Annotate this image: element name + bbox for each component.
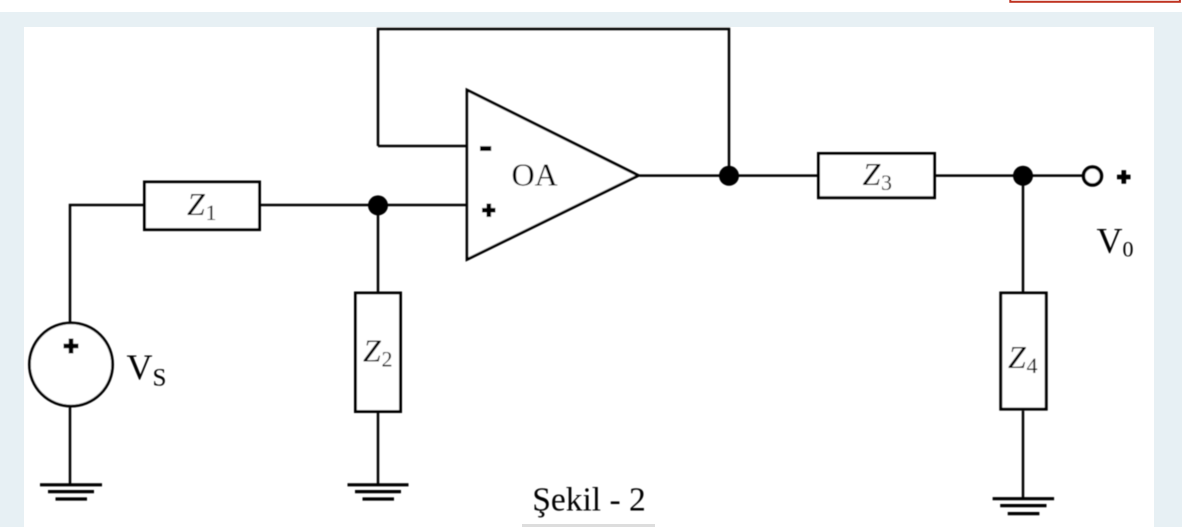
svg-text:Şekil - 2: Şekil - 2 [532, 482, 646, 519]
svg-text:Z: Z [1008, 339, 1027, 375]
svg-text:2: 2 [382, 346, 393, 371]
svg-text:1: 1 [206, 200, 217, 225]
svg-text:3: 3 [881, 170, 892, 195]
svg-text:S: S [153, 365, 167, 392]
svg-text:4: 4 [1027, 353, 1038, 378]
svg-text:Z: Z [187, 186, 206, 222]
svg-text:0: 0 [1123, 237, 1134, 262]
svg-text:OA: OA [512, 157, 558, 193]
svg-text:Z: Z [863, 156, 882, 192]
svg-text:V: V [1097, 221, 1123, 261]
svg-text:V: V [127, 347, 153, 387]
svg-text:Z: Z [363, 332, 382, 368]
